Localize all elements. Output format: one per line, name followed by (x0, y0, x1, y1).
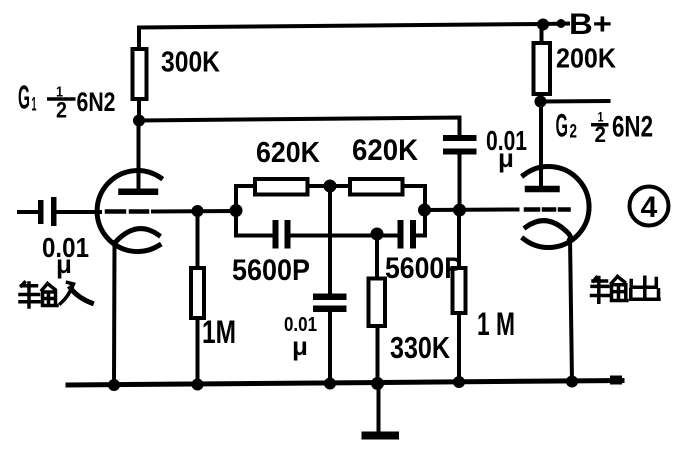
node twin-T left (230, 204, 243, 217)
label G1 1/2 6N2 (18, 79, 116, 123)
resistor R 1M right (453, 268, 466, 313)
wire bottom rail (68, 381, 622, 386)
wire 200K bottom lead (539, 94, 543, 102)
wire twin-T right to grid V2 (425, 208, 518, 213)
svg-text:620K: 620K (256, 137, 320, 169)
wire 1M right top lead (457, 210, 461, 268)
svg-text:G: G (556, 108, 569, 144)
resistor R 200K lead top (540, 24, 544, 44)
capacitor C 0.01u input (38, 197, 57, 226)
plate V2 (528, 186, 557, 193)
wire bottom arm right (416, 234, 425, 238)
cathode V1 arc (116, 229, 159, 242)
svg-text:6N2: 6N2 (77, 87, 116, 117)
svg-text:1M: 1M (202, 314, 236, 350)
svg-text:μ: μ (56, 249, 72, 279)
svg-text:B+: B+ (569, 8, 612, 41)
svg-text:2: 2 (595, 122, 607, 147)
wire top cap to grid line (458, 155, 462, 211)
wire B+ stub (543, 22, 568, 27)
wire top arm middle (308, 184, 351, 188)
svg-text:5600P: 5600P (232, 254, 310, 287)
wire anode lead V2 (539, 102, 543, 188)
resistor R 620K second (350, 179, 403, 195)
resistor R 620K first (255, 179, 308, 195)
capacitor C 5600P right (398, 220, 417, 249)
svg-text:300K: 300K (161, 47, 220, 79)
svg-text:6N2: 6N2 (612, 111, 653, 144)
wire cathode V2 lead (570, 237, 572, 382)
plate V1 (122, 188, 156, 195)
node rail cathode V2 (566, 376, 578, 388)
label circled 4 (630, 187, 669, 226)
wire 1M left bottom lead (196, 318, 200, 385)
wire shunt cap lead (328, 186, 332, 294)
node 620K midpoint (324, 180, 337, 193)
grid V1 dashes (107, 209, 147, 214)
label shuchu output chinese (592, 277, 660, 303)
tube V2 envelope (524, 167, 589, 248)
wire bottom arm left (236, 234, 273, 238)
svg-text:μ: μ (292, 331, 308, 361)
svg-text:5600P: 5600P (385, 252, 462, 285)
label G2 1/2 6N2 (556, 108, 654, 148)
svg-text:200K: 200K (556, 43, 616, 74)
node 5600P midpoint (371, 228, 384, 241)
svg-text:G: G (18, 79, 30, 116)
svg-text:4: 4 (641, 191, 658, 224)
tube V1 envelope (97, 171, 161, 252)
node rail 1M right (453, 376, 465, 388)
resistor R 330K (369, 279, 386, 327)
wire anode lead V1 (137, 121, 141, 190)
wire 330K top lead (375, 234, 379, 279)
node B+ junction (537, 19, 549, 31)
node top cap junction (453, 204, 466, 217)
wire twin-T right bracket (423, 186, 427, 236)
node rail 1M left (192, 379, 204, 391)
node left anode junction (133, 115, 145, 127)
svg-text:2: 2 (570, 122, 578, 143)
wire top rail B+ (139, 24, 543, 28)
svg-text:2: 2 (56, 98, 67, 123)
svg-text:620K: 620K (352, 134, 418, 167)
cathode V2 arc (526, 221, 571, 239)
capacitor C 0.01u shunt (313, 294, 347, 313)
ground (362, 432, 400, 440)
resistor R 300K (133, 49, 147, 99)
wire shunt cap bottom lead (328, 312, 332, 384)
wire 1M right bottom lead (457, 313, 461, 382)
wire 330K bottom lead (376, 326, 380, 384)
wire anode rail (139, 118, 460, 135)
wire twin-T left bracket (234, 186, 238, 236)
node rail 330K ground (371, 377, 384, 390)
node G2 junction (535, 96, 547, 108)
node rail cathode V1 (108, 379, 120, 391)
capacitor C 0.01u top (443, 135, 477, 155)
svg-text:330K: 330K (390, 330, 450, 365)
node rail shunt cap (324, 378, 336, 390)
capacitor C 5600P left (273, 220, 291, 249)
wire bottom arm middle (291, 234, 398, 238)
wire top arm right (403, 184, 426, 188)
node B+ small dot (557, 19, 566, 28)
wire top arm left (236, 184, 256, 188)
wire input to grid (57, 210, 101, 214)
resistor R 1M left (191, 268, 204, 318)
wire 300K bottom lead (137, 99, 141, 121)
wire cathode V1 lead (112, 242, 117, 385)
svg-text:1: 1 (32, 95, 37, 116)
wire bottom rail end blob (610, 376, 622, 385)
resistor R 200K (534, 43, 551, 94)
node 1M left junction (192, 205, 204, 217)
wire grid V1 to twin-T node (153, 209, 236, 214)
node twin-T right (418, 204, 431, 217)
label shuru input chinese (20, 283, 92, 308)
wire input left (19, 210, 38, 214)
svg-text:1 M: 1 M (477, 306, 515, 342)
wire ground lead (377, 384, 381, 433)
grid V2 dashes (526, 207, 569, 212)
wire G2 stub right (541, 99, 609, 104)
wire 1M left top lead (196, 211, 200, 268)
wire 300K top lead (137, 28, 141, 51)
svg-text:μ: μ (498, 143, 514, 173)
